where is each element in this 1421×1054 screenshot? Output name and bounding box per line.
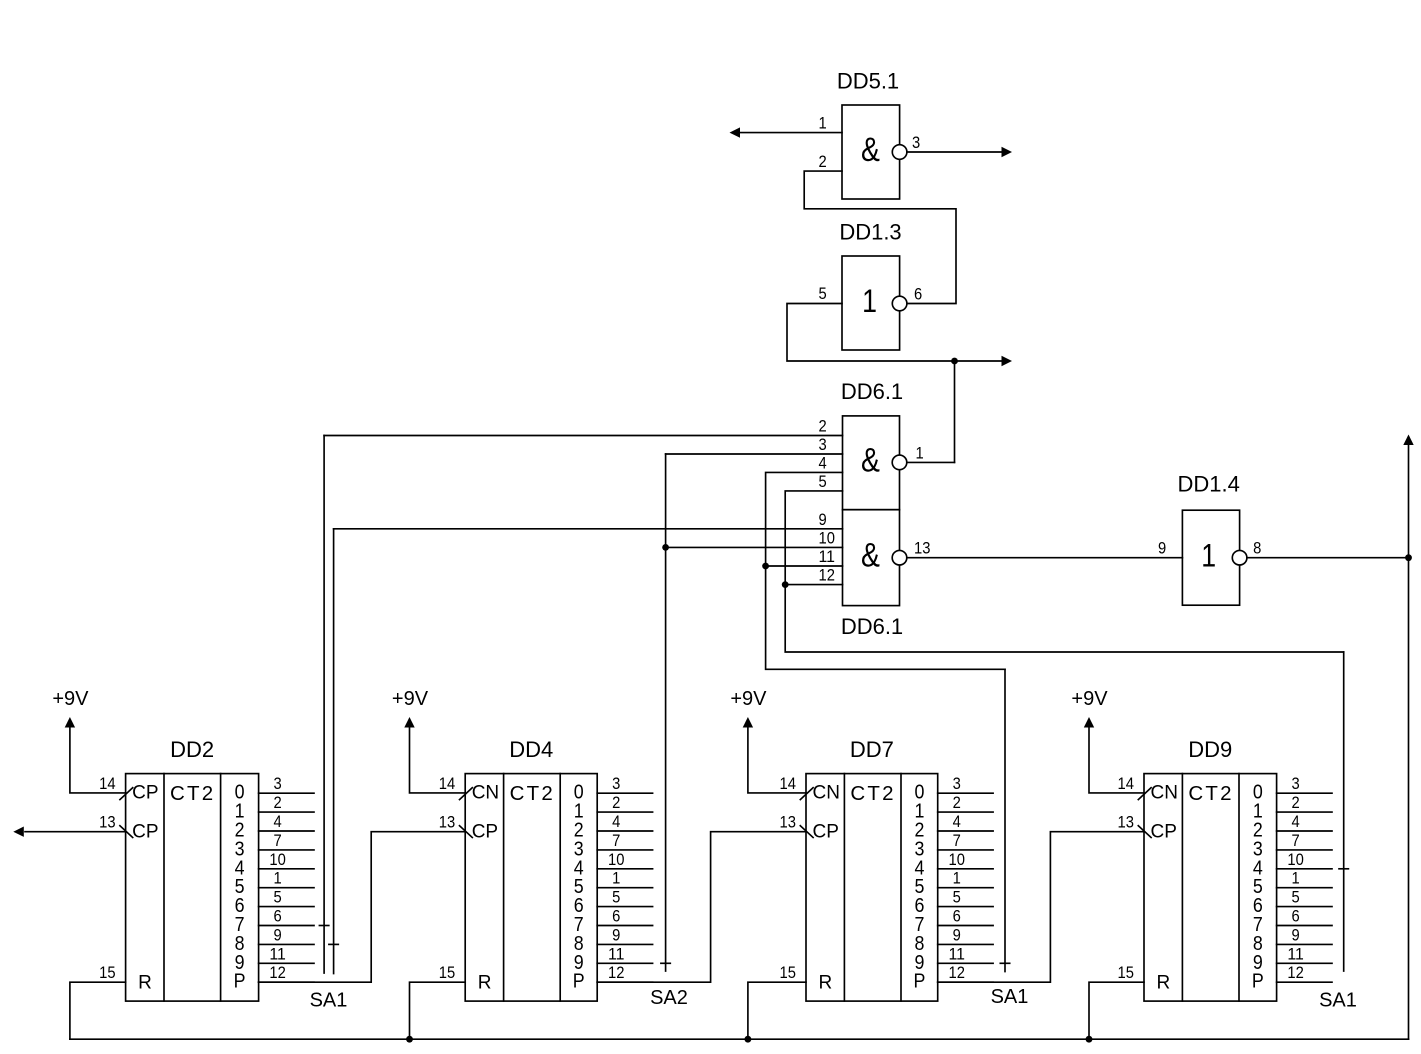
svg-text:P: P (573, 970, 585, 993)
svg-text:6: 6 (612, 907, 620, 926)
svg-text:&: & (861, 537, 880, 575)
svg-text:9: 9 (1158, 539, 1166, 558)
svg-text:5: 5 (273, 888, 281, 907)
wire from junction down to DD6.1 pin 1 output (954, 361, 956, 462)
gate DD5.1 body (2-input NAND) (842, 105, 900, 199)
svg-text:15: 15 (1118, 963, 1134, 982)
svg-text:R: R (478, 973, 492, 994)
counter DD9 output wire pin 7 (1277, 849, 1332, 851)
svg-text:11: 11 (819, 547, 835, 566)
svg-text:9: 9 (953, 925, 961, 944)
svg-text:+9V: +9V (1071, 688, 1108, 710)
svg-text:SA2: SA2 (650, 987, 688, 1009)
svg-text:13: 13 (99, 813, 115, 832)
svg-text:CT2: CT2 (850, 782, 895, 805)
wire bottom reset bus (70, 1038, 1409, 1040)
svg-text:CT2: CT2 (510, 782, 555, 805)
counter DD9 output wire pin 10 (1277, 868, 1332, 870)
svg-text:SA1: SA1 (991, 986, 1029, 1008)
counter DD9 output wire pin 6 (1277, 925, 1332, 927)
svg-text:3: 3 (273, 774, 281, 793)
counter DD9 (CT2 decade counter) body (1144, 774, 1277, 1002)
svg-text:CT2: CT2 (1188, 782, 1233, 805)
svg-text:2: 2 (612, 793, 620, 812)
counter DD7 output wire pin 9 (938, 943, 993, 945)
counter DD2 output wire pin 7 (259, 849, 314, 851)
svg-text:4: 4 (953, 812, 961, 831)
svg-text:15: 15 (439, 963, 455, 982)
switch SA1 (DD2) right contact tick (329, 943, 338, 945)
wire DD4 pin 14 to +9V arrow (410, 728, 466, 793)
svg-text:12: 12 (269, 963, 285, 982)
svg-text:CP: CP (472, 821, 498, 842)
svg-text:14: 14 (99, 774, 115, 793)
wire DD6.1 pin 10 from SA2 line junction (666, 546, 843, 548)
svg-text:3: 3 (953, 774, 961, 793)
power arrow +9V (DD4) (404, 717, 414, 728)
gate DD6.1 top output bubble pin 1 (892, 455, 907, 470)
counter DD9 output wire pin 5 (1277, 906, 1332, 908)
svg-text:15: 15 (780, 963, 796, 982)
svg-text:12: 12 (1287, 963, 1303, 982)
counter DD4 output wire pin 7 (597, 849, 652, 851)
svg-text:5: 5 (953, 888, 961, 907)
svg-text:5: 5 (1291, 888, 1299, 907)
junction dot SA2 line / pin 10 (662, 544, 669, 551)
svg-text:9: 9 (1291, 925, 1299, 944)
counter DD4 output wire pin 2 (597, 811, 652, 813)
wire DD5.1 pin 2 from DD1.3 output pin 6 (804, 171, 956, 303)
svg-text:SA1: SA1 (1319, 990, 1357, 1012)
svg-text:7: 7 (1291, 831, 1299, 850)
svg-text:DD4: DD4 (509, 737, 553, 762)
wire right vertical with up arrow (1408, 445, 1410, 1039)
svg-text:+9V: +9V (392, 688, 429, 710)
wire DD2 pin 15 R to bottom bus (70, 982, 126, 1039)
counter DD7 output wire pin 1 (938, 887, 993, 889)
power arrow +9V (DD9) (1084, 717, 1094, 728)
svg-text:5: 5 (819, 472, 827, 491)
svg-text:2: 2 (1291, 793, 1299, 812)
svg-text:1: 1 (953, 869, 961, 888)
junction dot SA1 (DD9) line / pin 12 (782, 581, 789, 588)
counter DD7 output wire pin 10 (938, 868, 993, 870)
counter DD9 output wire pin 9 (1277, 943, 1332, 945)
wire DD5.1 output pin 3 with right arrow (907, 151, 1001, 153)
junction dot bus / DD4 reset (406, 1036, 413, 1043)
svg-text:2: 2 (819, 417, 827, 436)
wire DD9 pin 15 R to bottom bus (1089, 982, 1144, 1039)
svg-text:DD9: DD9 (1188, 737, 1232, 762)
dynamic input slash pin 14 DD9 (1138, 788, 1151, 800)
counter DD4 output wire pin 1 (597, 887, 652, 889)
junction dot DD1.4 output / right vertical (1405, 554, 1412, 561)
svg-text:1: 1 (612, 869, 620, 888)
counter DD7 output wire pin 3 (938, 792, 993, 794)
svg-text:3: 3 (612, 774, 620, 793)
svg-text:2: 2 (273, 793, 281, 812)
svg-text:1: 1 (273, 869, 281, 888)
counter DD7 output wire pin 2 (938, 811, 993, 813)
svg-text:P: P (913, 970, 925, 993)
svg-text:10: 10 (819, 528, 835, 547)
gate DD1.4 output bubble pin 8 (1232, 550, 1247, 565)
counter DD4 output wire pin 10 (597, 868, 652, 870)
wire DD6.1 pin 9 from SA1 (DD2) right line (334, 528, 843, 530)
svg-text:13: 13 (1118, 813, 1134, 832)
counter DD7 output wire pin 11 (938, 962, 993, 964)
counter DD7 output wire pin 5 (938, 906, 993, 908)
counter DD2 output wire pin 6 (259, 925, 314, 927)
svg-text:6: 6 (273, 907, 281, 926)
svg-text:11: 11 (608, 944, 624, 963)
counter DD4 output wire pin 11 (597, 962, 652, 964)
svg-text:9: 9 (273, 925, 281, 944)
counter DD9 output wire pin 2 (1277, 811, 1332, 813)
svg-text:7: 7 (273, 831, 281, 850)
switch SA1 (DD2) left sense line to DD6.1 pin 2 (323, 436, 325, 974)
svg-text:14: 14 (439, 774, 455, 793)
svg-text:13: 13 (914, 539, 930, 558)
svg-text:&: & (861, 131, 880, 169)
gate DD6.1 top body (4-input NAND) (843, 416, 900, 510)
svg-text:SA1: SA1 (310, 990, 348, 1012)
svg-text:4: 4 (612, 812, 620, 831)
svg-text:P: P (1252, 970, 1264, 993)
svg-text:15: 15 (99, 963, 115, 982)
svg-text:CP: CP (813, 821, 839, 842)
svg-text:1: 1 (1291, 869, 1299, 888)
svg-text:CT2: CT2 (170, 782, 215, 805)
svg-text:3: 3 (819, 435, 827, 454)
svg-text:1: 1 (819, 114, 827, 133)
counter DD9 output wire pin 4 (1277, 830, 1332, 832)
svg-text:12: 12 (819, 566, 835, 585)
svg-text:11: 11 (269, 944, 285, 963)
gate DD1.4 body (inverter) (1182, 510, 1239, 605)
wire DD2 pin 14 to +9V arrow (70, 728, 126, 793)
wire DD6.1 pin 1 output to feedback node (907, 461, 955, 463)
svg-text:10: 10 (1287, 850, 1303, 869)
counter DD4 (CT2 decade counter) body (465, 774, 597, 1002)
svg-text:R: R (819, 973, 833, 994)
counter DD7 output wire pin 4 (938, 830, 993, 832)
svg-text:1: 1 (862, 283, 877, 319)
svg-text:4: 4 (1291, 812, 1299, 831)
switch SA1 (DD2) right sense line to DD6.1 pin 9 (333, 529, 335, 974)
junction dot SA1 (DD7) line / pin 11 (762, 563, 769, 570)
dynamic input slash pin 13 DD9 (1138, 826, 1151, 838)
wire DD6.1 pin 12 from SA1 (DD9) line junction (785, 584, 842, 586)
svg-text:14: 14 (780, 774, 796, 793)
dynamic input slash pin 14 DD2 (120, 788, 133, 800)
counter DD2 output wire pin 11 (259, 962, 314, 964)
counter DD2 output wire pin 12 (259, 981, 314, 983)
svg-text:DD6.1: DD6.1 (841, 614, 903, 639)
svg-text:7: 7 (612, 831, 620, 850)
svg-text:5: 5 (819, 284, 827, 303)
dynamic input slash pin 14 DD7 (800, 788, 813, 800)
counter DD2 output wire pin 4 (259, 830, 314, 832)
counter DD9 output wire pin 3 (1277, 792, 1332, 794)
svg-text:CP: CP (1151, 821, 1177, 842)
gate DD1.3 output inversion bubble pin 6 (892, 296, 907, 311)
switch SA1 (DD9) sense line to DD6.1 pins 5,12 (1343, 652, 1345, 971)
wire DD7 pin 15 R to bottom bus (748, 982, 806, 1039)
svg-text:DD5.1: DD5.1 (837, 69, 899, 94)
svg-text:P: P (234, 970, 246, 993)
counter DD2 output wire pin 9 (259, 943, 314, 945)
svg-text:11: 11 (948, 944, 964, 963)
svg-text:1: 1 (916, 443, 924, 462)
gate DD1.3 body (inverter) (842, 256, 900, 350)
svg-text:R: R (1157, 973, 1171, 994)
svg-text:14: 14 (1118, 774, 1134, 793)
counter DD7 (CT2 decade counter) body (806, 774, 938, 1002)
wire DD6.1 pin 3 from SA2 (DD4) line (666, 453, 843, 455)
svg-text:4: 4 (819, 453, 827, 472)
svg-text:+9V: +9V (52, 688, 89, 710)
switch SA2 (DD4) sense line to DD6.1 pins 3,10 (665, 454, 667, 971)
counter DD9 output wire pin 12 (1277, 981, 1332, 983)
svg-text:R: R (138, 973, 152, 994)
counter DD9 output wire pin 1 (1277, 887, 1332, 889)
svg-text:+9V: +9V (730, 688, 767, 710)
wire DD6.1 pin 11 from SA1 (DD7) line junction (766, 565, 843, 567)
counter DD2 (CT2 decade counter) body (126, 774, 259, 1002)
svg-text:6: 6 (914, 285, 922, 304)
svg-text:11: 11 (1287, 944, 1303, 963)
svg-text:DD7: DD7 (850, 737, 894, 762)
counter DD9 output wire pin 11 (1277, 962, 1332, 964)
counter DD4 output wire pin 6 (597, 925, 652, 927)
switch SA1 (DD7) sense line to DD6.1 pins 4,11 (1004, 669, 1006, 971)
svg-text:3: 3 (1291, 774, 1299, 793)
counter DD2 output wire pin 3 (259, 792, 314, 794)
switch SA1 (DD9) contact tick (1339, 868, 1348, 870)
counter DD4 output wire pin 9 (597, 943, 652, 945)
dynamic input slash pin 13 DD4 (460, 826, 473, 838)
switch SA1 (DD2) left contact tick (319, 925, 328, 927)
counter DD2 output wire pin 1 (259, 887, 314, 889)
counter DD4 output wire pin 5 (597, 906, 652, 908)
svg-text:4: 4 (273, 812, 281, 831)
counter DD4 output wire pin 4 (597, 830, 652, 832)
counter DD4 output wire pin 12 (597, 981, 652, 983)
svg-text:5: 5 (612, 888, 620, 907)
wire DD4 carry P to DD7 pin 13 CP (597, 832, 806, 983)
gate DD6.1 bottom body (4-input NAND) (843, 510, 900, 606)
svg-text:10: 10 (269, 850, 285, 869)
dynamic input slash pin 13 DD7 (800, 826, 813, 838)
svg-text:2: 2 (819, 152, 827, 171)
wire DD2 carry P to DD4 pin 13 CP (259, 832, 466, 983)
wire DD4 pin 15 R to bottom bus (410, 982, 466, 1039)
wire DD6.1 pin 4 to SA1 (DD7) line (766, 472, 1005, 669)
svg-text:CN: CN (1151, 783, 1178, 804)
svg-text:DD1.4: DD1.4 (1178, 472, 1240, 497)
svg-text:CN: CN (472, 783, 499, 804)
junction dot bus / DD9 reset (1086, 1036, 1093, 1043)
counter DD7 output wire pin 6 (938, 925, 993, 927)
svg-text:1: 1 (1201, 538, 1216, 574)
svg-text:6: 6 (953, 907, 961, 926)
dynamic input slash pin 13 DD2 (120, 826, 133, 838)
svg-text:12: 12 (948, 963, 964, 982)
gate DD5.1 output inversion bubble (892, 145, 907, 160)
node junction dot feedback/output (951, 358, 958, 365)
power arrow +9V (DD7) (743, 717, 753, 728)
arrow right on feedback node wire (1002, 356, 1013, 366)
wire DD1.4 pin 8 output to right vertical (1247, 557, 1409, 559)
wire DD2 pin 13 CP external input with left arrow (25, 831, 126, 833)
wire DD5.1 pin 1 input with left arrow (740, 132, 842, 134)
svg-text:13: 13 (439, 813, 455, 832)
svg-text:12: 12 (608, 963, 624, 982)
svg-text:CP: CP (132, 783, 158, 804)
svg-text:13: 13 (780, 813, 796, 832)
svg-text:10: 10 (948, 850, 964, 869)
counter DD2 output wire pin 2 (259, 811, 314, 813)
junction dot bus / DD7 reset (745, 1036, 752, 1043)
wire DD6.1 pin 2 from SA1 (DD2) left line (324, 435, 842, 437)
wire DD6.1 pin 5 to SA1 (DD9) line (785, 491, 1343, 652)
svg-text:DD1.3: DD1.3 (839, 220, 901, 245)
svg-text:CN: CN (813, 783, 840, 804)
svg-text:DD2: DD2 (170, 737, 214, 762)
switch SA1 (DD7) contact tick (1000, 962, 1009, 964)
dynamic input slash pin 14 DD4 (460, 788, 473, 800)
gate DD6.1 bottom output bubble pin 13 (892, 550, 907, 565)
counter DD2 output wire pin 10 (259, 868, 314, 870)
wire DD1.3 pin 5 input from feedback node (787, 304, 1001, 362)
svg-text:DD6.1: DD6.1 (841, 379, 903, 404)
svg-text:&: & (861, 442, 880, 480)
counter DD4 output wire pin 3 (597, 792, 652, 794)
counter DD7 output wire pin 12 (938, 981, 993, 983)
svg-text:CP: CP (132, 821, 158, 842)
wire DD9 pin 14 to +9V arrow (1089, 728, 1144, 793)
power arrow +9V (DD2) (65, 717, 75, 728)
svg-text:8: 8 (1253, 539, 1261, 558)
wire DD7 pin 14 to +9V arrow (748, 728, 806, 793)
counter DD2 output wire pin 5 (259, 906, 314, 908)
svg-text:7: 7 (953, 831, 961, 850)
svg-text:2: 2 (953, 793, 961, 812)
svg-text:3: 3 (912, 133, 920, 152)
svg-text:6: 6 (1291, 907, 1299, 926)
switch SA2 contact tick (661, 962, 670, 964)
svg-text:9: 9 (612, 925, 620, 944)
svg-text:9: 9 (819, 510, 827, 529)
wire DD7 carry P to DD9 pin 13 CP (938, 832, 1144, 983)
svg-text:10: 10 (608, 850, 624, 869)
counter DD7 output wire pin 7 (938, 849, 993, 851)
wire DD6.1 pin 13 output to DD1.4 pin 9 (907, 557, 1183, 559)
